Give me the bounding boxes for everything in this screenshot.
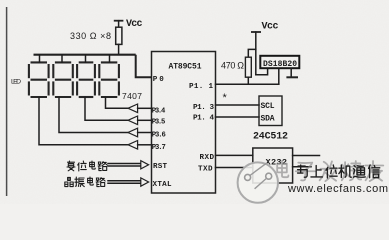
wire: P1.3 to SCL	[216, 104, 260, 106]
wire: DQ data line P1.1 to DS18B20	[216, 83, 279, 85]
level shifter U5 X232	[253, 148, 293, 183]
buffer U2C 7407	[128, 128, 138, 137]
resistor network RN1 330 ohm x8	[116, 27, 122, 54]
wire: digit3 cathode to buffer U2B	[85, 98, 128, 121]
svg-text:P3.4: P3.4	[152, 107, 166, 115]
buffer U2D 7407	[128, 141, 138, 150]
wire: X232 serial out (top)	[293, 155, 320, 157]
LED digit 4 (7-seg)	[99, 62, 119, 97]
svg-text:Vcc: Vcc	[262, 22, 279, 33]
svg-text:P3.6: P3.6	[152, 131, 166, 139]
svg-text:DS18B20: DS18B20	[263, 60, 297, 69]
label crystal circuit (Chinese)	[65, 177, 105, 187]
svg-text:RXD: RXD	[200, 154, 215, 162]
watermark logo circle (elecfans)	[238, 162, 278, 202]
wire: digit1 cathode to buffer U2D	[39, 98, 128, 145]
svg-text:XTAL: XTAL	[153, 181, 172, 189]
wire: U2D to P3.7	[138, 144, 152, 146]
power Vcc (DS18B20 supply)	[251, 32, 261, 75]
wire: U2A to P3.4	[138, 107, 152, 109]
resistor R2 470 ohm (pull-up)	[245, 57, 251, 77]
svg-text:P1. 3: P1. 3	[193, 104, 214, 112]
temperature sensor U4 DS18B20	[260, 56, 299, 68]
buffer U2B 7407	[128, 116, 138, 125]
svg-text:P1. 1: P1. 1	[189, 83, 213, 91]
MCU U1 AT89C51	[152, 52, 216, 194]
wire: TXD to X232	[216, 167, 253, 169]
wire: digit3 top pin to bus	[85, 55, 87, 62]
svg-text:SCL: SCL	[261, 102, 275, 111]
svg-text:P1. 4: P1. 4	[193, 115, 214, 123]
svg-text:P3.7: P3.7	[152, 144, 166, 152]
wire: DS18B20 VDD pin to Vcc	[256, 68, 268, 74]
svg-text:7407: 7407	[122, 91, 142, 101]
svg-text:AT89C51: AT89C51	[169, 62, 202, 71]
wire: digit4 cathode to buffer U2A	[106, 98, 129, 109]
wire: P1.4 to SDA	[216, 116, 260, 118]
wire: digit1 top pin to bus	[39, 55, 41, 62]
svg-text:RST: RST	[153, 163, 167, 171]
LED digit 1 (7-seg)	[29, 62, 49, 97]
svg-text:LED: LED	[11, 78, 21, 85]
LED digit 3 (7-seg)	[77, 62, 95, 97]
wire: U2C to P3.6	[138, 132, 152, 134]
watermark text (gray, elecfans)	[277, 161, 383, 181]
label reset circuit (Chinese)	[67, 161, 107, 171]
wire: DS18B20 DQ pin	[278, 68, 280, 84]
wire: resistor bottom to DQ line	[247, 77, 249, 84]
svg-text:www.elecfans.com: www.elecfans.com	[287, 183, 388, 195]
svg-text:330 Ω ×8: 330 Ω ×8	[70, 31, 111, 41]
svg-text:P3.5: P3.5	[152, 118, 166, 126]
svg-text:SDA: SDA	[261, 114, 275, 123]
wire: DS18B20 GND pin	[290, 68, 292, 77]
power Vcc (LED anode supply)	[114, 21, 124, 28]
wire: X232 serial out (bottom)	[293, 166, 311, 168]
label: to host computer (Chinese, dark)	[298, 165, 380, 178]
EEPROM U3 24C512	[259, 96, 282, 126]
scan border line (left edge)	[6, 7, 8, 196]
wire: digit2 cathode to buffer U2C	[59, 98, 128, 133]
svg-text:24C512: 24C512	[253, 131, 288, 142]
LED digit 2 (7-seg)	[53, 62, 73, 97]
wire: anode bus from resistor to LED digits	[34, 54, 136, 56]
svg-text:Vcc: Vcc	[126, 19, 143, 30]
buffer U2A 7407	[128, 104, 138, 113]
svg-text:470 Ω: 470 Ω	[221, 60, 244, 70]
arrow: reset circuit to RST	[108, 161, 149, 169]
wire: digit2 top pin to bus	[61, 55, 63, 62]
svg-text:*: *	[223, 92, 228, 104]
wire: Vcc branch to pull-up resistor	[248, 49, 256, 57]
svg-text:P0: P0	[153, 76, 164, 84]
svg-text:TXD: TXD	[198, 165, 213, 173]
wire: U2B to P3.5	[138, 119, 152, 121]
wire: digit4 top pin to bus	[109, 55, 111, 62]
wire: RXD to X232	[216, 154, 253, 156]
ground	[286, 76, 298, 78]
arrow: crystal circuit to XTAL	[108, 178, 149, 186]
wire: bus drop to P0 pin	[136, 55, 152, 78]
